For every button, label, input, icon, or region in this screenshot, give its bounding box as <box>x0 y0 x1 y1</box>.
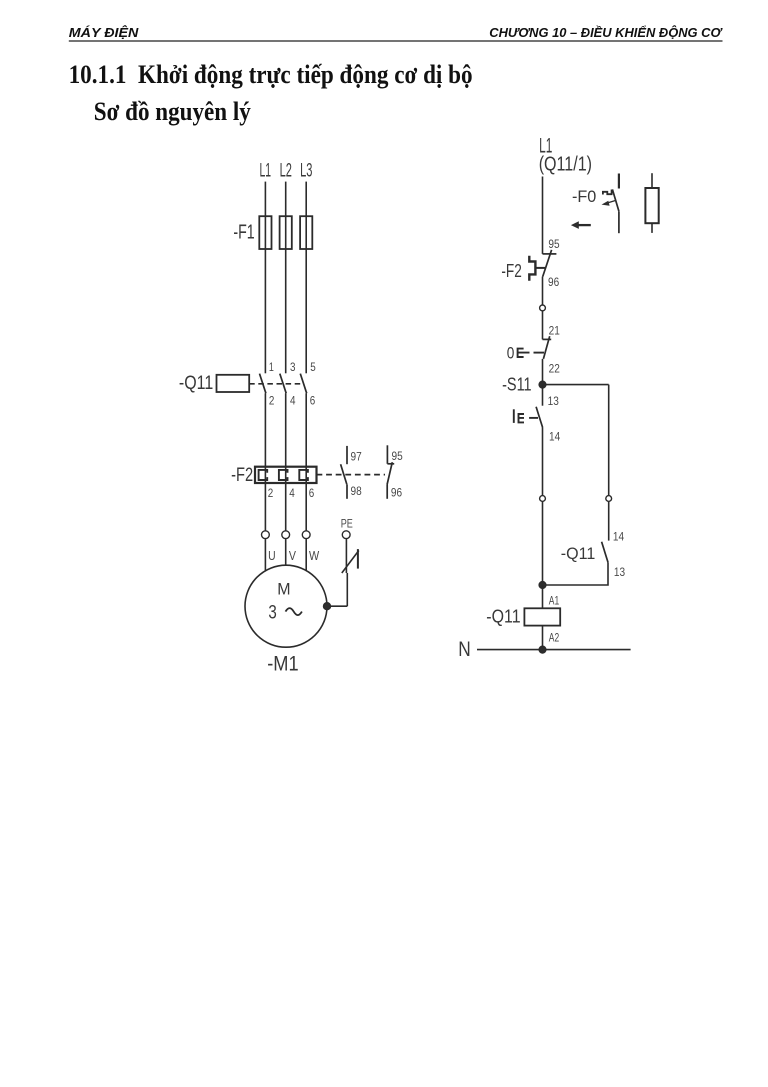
wire L2 mid <box>285 249 287 373</box>
svg-text:L3: L3 <box>300 161 312 182</box>
svg-text:96: 96 <box>391 487 402 499</box>
terminal circle W <box>302 531 310 539</box>
wire circle to 0 button <box>542 311 544 340</box>
svg-text:-Q11: -Q11 <box>561 544 596 563</box>
big left arrow <box>571 221 579 229</box>
svg-text:4: 4 <box>289 488 295 500</box>
svg-text:95: 95 <box>548 239 559 251</box>
F2 bimetal tap <box>535 267 545 269</box>
fuse F1 phase 2 <box>280 216 292 249</box>
aux contact 97-98 blade <box>341 464 347 484</box>
svg-text:-F2: -F2 <box>501 260 521 281</box>
wire F2 to circle <box>542 277 544 305</box>
contactor Q11 actuator dashed link <box>249 383 302 385</box>
breaker F0 top bar <box>618 174 620 189</box>
heater element phase 1 <box>259 470 268 480</box>
wire L3 top <box>305 182 307 217</box>
svg-text:V: V <box>289 549 297 563</box>
wire aux contact down and left <box>546 562 608 585</box>
contact Q11 blade phase 2 <box>280 374 286 394</box>
svg-text:-F1: -F1 <box>233 221 254 243</box>
PE wire down <box>345 539 347 573</box>
branch wire right <box>543 384 609 386</box>
breaker F0 bottom lead <box>618 211 620 233</box>
header underline <box>69 40 723 42</box>
junction dot S11 <box>539 381 546 388</box>
breaker F0 blade <box>612 189 619 211</box>
F2 NC contact blade <box>543 250 552 277</box>
aux contact 95-96 bottom lead <box>386 485 388 499</box>
svg-text:98: 98 <box>351 486 362 498</box>
aux contact 95-96 foot <box>387 463 394 465</box>
wire junction to I button <box>542 385 544 406</box>
fuse F1 phase 1 <box>259 216 271 249</box>
svg-text:CHƯƠNG 10 – ĐIỀU KHIỂN ĐỘNG CƠ: CHƯƠNG 10 – ĐIỀU KHIỂN ĐỘNG CƠ <box>489 25 723 40</box>
thermal relay F2 box <box>255 467 317 483</box>
wire V to motor <box>285 539 287 566</box>
motor M1 circle <box>245 565 327 647</box>
svg-text:5: 5 <box>310 362 316 374</box>
svg-text:97: 97 <box>351 452 362 464</box>
I button blade <box>536 407 543 428</box>
svg-text:3: 3 <box>290 362 296 374</box>
N bus wire <box>477 649 631 651</box>
svg-text:96: 96 <box>548 277 559 289</box>
svg-text:Sơ đồ nguyên lý: Sơ đồ nguyên lý <box>94 97 251 126</box>
svg-text:A1: A1 <box>549 594 560 608</box>
wire L1 lower <box>264 393 266 531</box>
wire left circle down <box>542 501 544 581</box>
svg-text:22: 22 <box>549 364 560 376</box>
terminal circle left <box>540 496 546 502</box>
svg-text:-M1: -M1 <box>267 652 298 675</box>
junction dot above coil <box>539 582 546 589</box>
junction dot on motor frame <box>324 603 331 610</box>
wire L3 mid <box>305 249 307 373</box>
F2 trip dashed link <box>317 474 386 476</box>
svg-text:L1: L1 <box>260 161 272 182</box>
contact Q11 blade phase 3 <box>300 374 306 394</box>
breaker F0 trip arrow <box>607 200 616 203</box>
svg-text:-F0: -F0 <box>572 188 596 206</box>
svg-text:N: N <box>458 638 471 661</box>
svg-text:-Q11: -Q11 <box>179 372 213 394</box>
terminal circle 1 <box>540 305 546 311</box>
aux contact 95-96 blade <box>387 462 392 484</box>
svg-text:2: 2 <box>268 488 274 500</box>
svg-text:13: 13 <box>614 567 625 579</box>
svg-text:1: 1 <box>269 362 274 374</box>
contactor Q11 operator box <box>217 375 250 392</box>
svg-text:21: 21 <box>549 326 560 338</box>
wire right circle down <box>608 501 610 540</box>
wire dot to coil <box>542 585 544 608</box>
0 button foot <box>543 338 552 340</box>
0 button actuator E <box>518 349 530 357</box>
F2 NC contact foot <box>543 253 557 255</box>
svg-text:2: 2 <box>269 395 275 407</box>
PE wire to motor frame <box>327 605 347 607</box>
terminal circle right <box>606 496 612 502</box>
F2 bimetal symbol <box>529 256 535 281</box>
wire L2 top <box>285 182 287 217</box>
svg-text:MÁY ĐIỆN: MÁY ĐIỆN <box>69 25 140 40</box>
svg-text:-S11: -S11 <box>502 374 531 394</box>
terminal circle V <box>282 531 290 539</box>
terminal circle PE <box>342 531 350 539</box>
wire U to motor <box>264 539 266 571</box>
svg-text:L2: L2 <box>280 161 292 182</box>
wire W to motor <box>305 539 307 571</box>
svg-text:(Q11/1): (Q11/1) <box>539 154 592 176</box>
svg-text:0: 0 <box>507 344 515 363</box>
label I <box>513 409 515 423</box>
main wire top <box>542 177 544 254</box>
svg-text:A2: A2 <box>549 631 560 645</box>
fuse F1 phase 3 <box>300 216 312 249</box>
0 button blade <box>543 336 549 359</box>
svg-text:14: 14 <box>613 531 625 543</box>
I button actuator E <box>519 414 525 422</box>
wire L1 top <box>264 182 266 217</box>
svg-text:M: M <box>277 580 290 598</box>
coil Q11 box <box>524 608 560 625</box>
contact Q11 blade phase 1 <box>260 374 266 394</box>
fuse alternative <box>645 188 658 223</box>
aux contact 95-96 top lead <box>386 445 388 464</box>
svg-text:10.1.1 Khởi động trực tiếp độ: 10.1.1 Khởi động trực tiếp động cơ dị bộ <box>69 60 473 89</box>
PE bar <box>357 549 359 569</box>
svg-text:3: 3 <box>268 603 276 624</box>
heater element phase 3 <box>299 470 308 480</box>
svg-text:4: 4 <box>290 395 296 407</box>
wire I button down <box>542 428 544 496</box>
svg-text:W: W <box>309 549 319 563</box>
aux contact 97-98 bottom lead <box>346 484 348 499</box>
svg-text:95: 95 <box>392 451 403 463</box>
wire L2 lower <box>285 393 287 531</box>
breaker F0 latch squiggle <box>603 190 612 195</box>
junction dot on N <box>539 646 546 653</box>
wire L3 lower <box>305 393 307 531</box>
svg-text:14: 14 <box>549 432 561 444</box>
wire coil to N <box>542 626 544 650</box>
svg-text:13: 13 <box>548 396 559 408</box>
aux contact 97-98 top lead <box>346 446 348 464</box>
wire L1 mid <box>264 249 266 373</box>
svg-text:PE: PE <box>341 517 353 531</box>
heater element phase 2 <box>279 470 288 480</box>
terminal circle U <box>262 531 270 539</box>
svg-text:6: 6 <box>309 488 315 500</box>
wire 0 button to junction <box>542 359 544 385</box>
svg-text:-F2: -F2 <box>231 464 253 486</box>
svg-text:-Q11: -Q11 <box>486 607 520 627</box>
svg-text:6: 6 <box>310 395 316 407</box>
Q11 aux contact blade <box>602 542 608 563</box>
PE disconnect slash <box>342 551 359 574</box>
svg-text:U: U <box>268 549 276 563</box>
